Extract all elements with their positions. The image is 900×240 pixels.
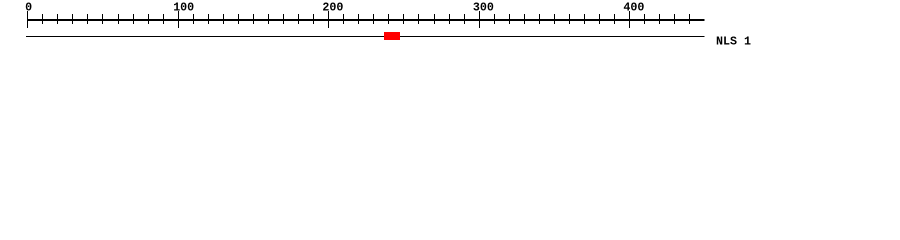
svg-text:300: 300 [473,0,494,14]
NLS motif red box [384,32,400,40]
ruler axis line [27,19,705,21]
ruler major ticks at 0,100,200,300,400 [28,11,630,28]
ruler minor ticks every 10 units [43,14,690,24]
svg-text:400: 400 [623,0,644,14]
svg-text:200: 200 [322,0,343,14]
feature baseline [26,36,705,37]
svg-text:100: 100 [173,0,194,14]
svg-text:0: 0 [25,0,32,14]
svg-text:NLS 1: NLS 1 [716,35,751,49]
